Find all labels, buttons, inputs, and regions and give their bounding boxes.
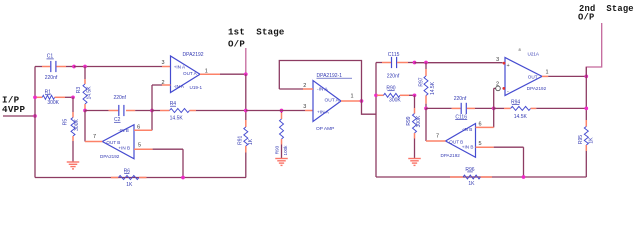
resistor R93 <box>275 111 289 159</box>
node junction buffer out <box>360 99 364 103</box>
svg-text:1K: 1K <box>248 138 254 145</box>
pin 7 op-amp B <box>85 111 102 142</box>
svg-text:6: 6 <box>137 124 140 130</box>
svg-text:14.5K: 14.5K <box>514 114 528 120</box>
svg-text:-IN B: -IN B <box>118 128 128 133</box>
pin 1 U21A wire <box>542 69 586 76</box>
svg-text:2: 2 <box>303 83 306 89</box>
resistor R94 <box>494 99 587 120</box>
ground stage2 <box>408 159 421 166</box>
svg-text:OUT B: OUT B <box>106 140 120 145</box>
node junction C2 R4 <box>150 109 154 113</box>
capacitor C116 <box>426 96 494 121</box>
svg-text:-IN A: -IN A <box>317 87 328 93</box>
resistor R90 <box>377 86 415 104</box>
pin 3 buffer <box>303 104 306 110</box>
svg-text:5: 5 <box>478 141 481 147</box>
pin 2 U21A <box>494 82 505 91</box>
capacitor C1 <box>35 54 74 82</box>
node junction C1 right <box>72 65 76 69</box>
svg-text:-IN A: -IN A <box>174 84 185 89</box>
wire left vertical <box>34 67 36 178</box>
svg-text:14.5K: 14.5K <box>170 116 184 122</box>
pin 7 op-amp B2 <box>426 108 446 141</box>
wire bottom stage1 <box>35 177 246 179</box>
svg-text:+: + <box>507 63 510 69</box>
svg-text:R3: R3 <box>76 87 82 94</box>
node junction stage1 out <box>244 72 248 76</box>
svg-text:14.5K: 14.5K <box>430 81 436 95</box>
node junction stage2 out <box>584 75 588 79</box>
svg-text:6: 6 <box>478 122 481 128</box>
resistor R1 <box>35 90 73 106</box>
svg-text:R93: R93 <box>275 145 280 154</box>
svg-text:O/P: O/P <box>578 12 594 22</box>
pin 6 op-amp B <box>134 124 152 130</box>
svg-text:220nf: 220nf <box>454 96 467 102</box>
wire top net to pin3 <box>74 66 171 68</box>
node junction R90 right <box>413 93 417 97</box>
svg-text:1: 1 <box>545 69 548 75</box>
svg-text:1: 1 <box>350 94 353 100</box>
op-amp U21 B <box>441 124 476 159</box>
capacitor C115 <box>376 52 415 80</box>
svg-text:14.5K: 14.5K <box>86 86 92 100</box>
svg-text:+IN B: +IN B <box>462 144 474 149</box>
pin 1 buffer wire <box>341 94 362 102</box>
ground R93 <box>275 159 288 166</box>
svg-text:+IN A: +IN A <box>317 110 330 116</box>
svg-text:1: 1 <box>205 68 208 74</box>
svg-text:R91: R91 <box>237 136 243 145</box>
resistor R91 <box>237 120 254 178</box>
op-amp U20 buffer <box>313 73 352 132</box>
svg-text:1K: 1K <box>126 182 133 188</box>
svg-text:300K: 300K <box>47 100 59 106</box>
node junction R3 bottom <box>83 109 87 113</box>
svg-text:2: 2 <box>161 80 164 86</box>
wire mid vertical <box>245 74 247 120</box>
wire buffer out to stage2 <box>362 101 377 114</box>
svg-text:220nf: 220nf <box>387 74 400 80</box>
svg-text:O/P: O/P <box>228 39 245 50</box>
svg-text:3: 3 <box>496 57 499 63</box>
node junction C115 right <box>413 61 417 65</box>
svg-text:220nf: 220nf <box>45 75 58 81</box>
resistor R3 <box>76 67 92 111</box>
svg-text:DPA2192: DPA2192 <box>183 52 204 58</box>
svg-text:DPA2192: DPA2192 <box>527 86 547 91</box>
wire feedback vertical stage2 <box>493 88 495 127</box>
pin 3 op-amp A <box>161 60 164 66</box>
resistor R97 <box>419 63 437 109</box>
pin 6 op-amp B2 <box>476 122 494 128</box>
wire stage2 left vertical <box>375 63 377 178</box>
svg-text:7: 7 <box>93 134 96 140</box>
svg-text:OP AMP: OP AMP <box>316 126 334 132</box>
node junction R97 top <box>424 61 428 65</box>
wire input <box>3 115 35 117</box>
capacitor C2 <box>85 95 152 123</box>
wire 2nd stage O/P drop <box>586 23 601 77</box>
node junction input <box>33 114 37 118</box>
wire feedback vertical stage1 <box>151 85 153 130</box>
pin 2 op-amp A <box>152 80 171 86</box>
wire bottom stage2 <box>376 176 586 178</box>
resistor R6 <box>111 168 147 188</box>
svg-text:+IN A: +IN A <box>174 65 186 70</box>
svg-text:R5: R5 <box>63 119 69 126</box>
pin 5 op-amp B <box>134 142 183 177</box>
svg-text:R99: R99 <box>406 116 412 125</box>
node I/P input label <box>2 95 25 115</box>
resistor R95 <box>578 120 595 177</box>
node junction R97 bottom <box>424 107 428 111</box>
svg-text:-: - <box>507 88 509 94</box>
node junction R90 left <box>374 93 378 97</box>
wire 1st stage O/P drop <box>245 48 247 74</box>
wire top net stage2 <box>415 62 503 64</box>
op-amp U19 A <box>171 52 204 93</box>
svg-text:1K: 1K <box>588 137 594 144</box>
wire buffer feedback <box>279 61 361 102</box>
svg-text:OUT A: OUT A <box>183 71 198 76</box>
node junction pin5 bottom2 <box>522 175 526 179</box>
svg-text:U21A: U21A <box>528 51 540 56</box>
resistor R5 <box>63 97 80 161</box>
svg-text:+IN B: +IN B <box>118 146 130 151</box>
resistor R99 <box>406 95 422 158</box>
svg-text:R95: R95 <box>578 135 584 144</box>
wire right vertical <box>585 67 587 120</box>
svg-text:1K: 1K <box>468 181 475 187</box>
ground stage1 left <box>67 162 80 169</box>
svg-text:220nf: 220nf <box>113 95 126 101</box>
node junction pin5 bottom <box>181 176 185 180</box>
svg-text:5: 5 <box>138 142 141 148</box>
svg-text:7: 7 <box>436 133 439 139</box>
node 1st stage output label <box>228 27 285 50</box>
node junction C116 R94 <box>492 107 496 111</box>
svg-text:300K: 300K <box>74 119 80 131</box>
svg-text:C115: C115 <box>388 52 400 58</box>
pin 5 op-amp B2 <box>476 141 524 177</box>
svg-text:DPA2192: DPA2192 <box>100 154 120 159</box>
svg-text:R97: R97 <box>419 77 425 86</box>
svg-text:4VPP: 4VPP <box>2 104 25 115</box>
op-amp U21A <box>505 47 547 96</box>
svg-text:U19-1: U19-1 <box>190 85 203 90</box>
node junction R1 left <box>33 95 37 99</box>
pin 3 U21A <box>496 57 505 65</box>
node junction R94 right <box>584 107 588 111</box>
node 2nd stage output label <box>578 4 634 23</box>
svg-text:1st Stage: 1st Stage <box>228 27 285 38</box>
resistor R96 <box>450 167 492 187</box>
svg-text:3: 3 <box>161 60 164 66</box>
node junction R3 top <box>83 65 87 69</box>
pin 2 buffer <box>279 83 313 89</box>
op-amp U19 B <box>100 125 134 160</box>
svg-text:2: 2 <box>496 82 499 88</box>
svg-text:OUT A: OUT A <box>325 98 340 104</box>
node junction R4 right <box>244 109 248 113</box>
pin 1 op-amp A wire <box>200 68 246 74</box>
svg-text:DPA2192: DPA2192 <box>441 153 461 158</box>
svg-text:300K: 300K <box>389 98 401 104</box>
svg-text:300K: 300K <box>416 115 422 127</box>
svg-text:100k: 100k <box>283 145 288 156</box>
svg-text:-IN B: -IN B <box>462 127 472 132</box>
wire pin3 net middle <box>246 110 313 112</box>
svg-text:OUT: OUT <box>528 75 538 80</box>
svg-text:3: 3 <box>303 104 306 110</box>
node junction R93 top <box>280 109 284 113</box>
resistor R4 <box>152 101 246 122</box>
node junction R1 right <box>71 95 75 99</box>
